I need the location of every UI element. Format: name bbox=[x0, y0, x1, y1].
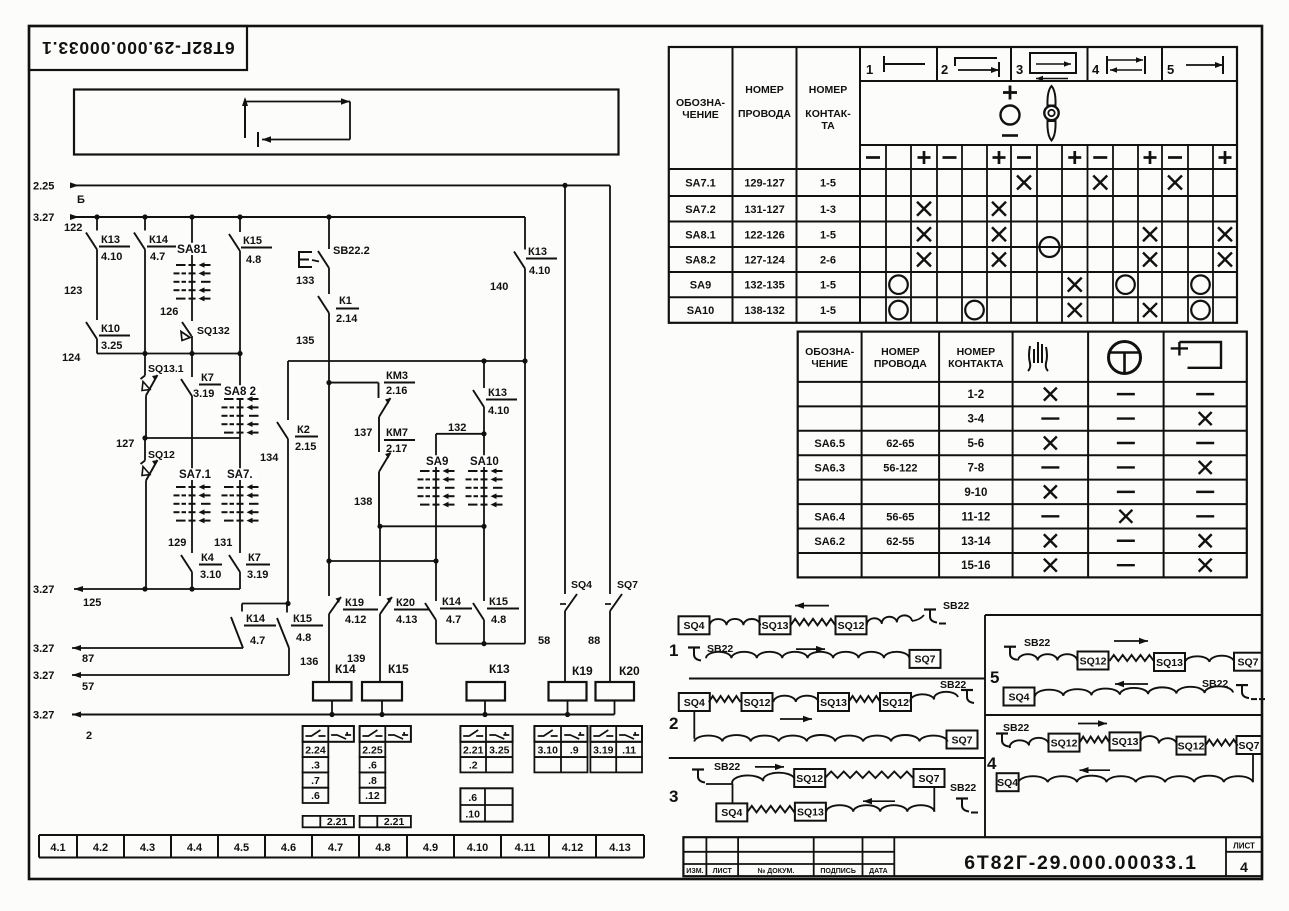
svg-text:SQ12: SQ12 bbox=[1051, 737, 1078, 749]
svg-text:К19: К19 bbox=[345, 597, 364, 609]
svg-text:К15: К15 bbox=[243, 235, 262, 247]
svg-text:2.16: 2.16 bbox=[386, 385, 407, 397]
svg-text:122: 122 bbox=[64, 222, 82, 234]
svg-text:КМ7: КМ7 bbox=[386, 427, 408, 439]
svg-text:SА7.2: SА7.2 bbox=[685, 204, 716, 216]
svg-text:НОМЕР: НОМЕР bbox=[745, 84, 784, 96]
svg-text:НОМЕР: НОМЕР bbox=[809, 84, 848, 96]
svg-text:123: 123 bbox=[64, 285, 82, 297]
svg-text:SQ12: SQ12 bbox=[148, 449, 175, 461]
svg-text:129-127: 129-127 bbox=[744, 178, 784, 190]
svg-text:1-5: 1-5 bbox=[820, 305, 836, 317]
svg-text:4.8: 4.8 bbox=[375, 842, 390, 854]
svg-text:134: 134 bbox=[260, 452, 279, 464]
svg-text:2-6: 2-6 bbox=[820, 255, 836, 267]
svg-text:SВ22.2: SВ22.2 bbox=[333, 245, 370, 257]
svg-text:56-122: 56-122 bbox=[883, 462, 917, 474]
svg-text:2.14: 2.14 bbox=[336, 313, 358, 325]
svg-text:SА8.2: SА8.2 bbox=[685, 255, 716, 267]
svg-text:126: 126 bbox=[160, 306, 178, 318]
svg-text:132-135: 132-135 bbox=[744, 280, 784, 292]
svg-text:SQ4: SQ4 bbox=[1008, 691, 1029, 703]
svg-text:SQ12: SQ12 bbox=[744, 697, 771, 709]
svg-text:3.27: 3.27 bbox=[33, 643, 54, 655]
svg-text:ОБОЗНА-: ОБОЗНА- bbox=[805, 346, 855, 358]
svg-text:127: 127 bbox=[116, 438, 134, 450]
svg-text:3.27: 3.27 bbox=[33, 212, 54, 224]
svg-text:2: 2 bbox=[86, 730, 92, 742]
svg-text:4.10: 4.10 bbox=[101, 251, 122, 263]
svg-text:.6: .6 bbox=[368, 760, 377, 772]
svg-text:1-5: 1-5 bbox=[820, 229, 836, 241]
svg-text:4.11: 4.11 bbox=[515, 842, 536, 854]
svg-text:SQ4: SQ4 bbox=[684, 697, 705, 709]
svg-text:SВ22: SВ22 bbox=[714, 761, 740, 773]
svg-text:2.15: 2.15 bbox=[295, 441, 316, 453]
svg-text:3-4: 3-4 bbox=[968, 414, 985, 426]
svg-text:SQ4: SQ4 bbox=[997, 777, 1018, 789]
svg-text:.6: .6 bbox=[311, 790, 320, 802]
svg-text:ИЗМ.: ИЗМ. bbox=[686, 868, 703, 875]
svg-text:SВ22: SВ22 bbox=[940, 679, 966, 691]
svg-text:К14: К14 bbox=[442, 596, 462, 608]
svg-text:5: 5 bbox=[1167, 62, 1174, 77]
svg-text:87: 87 bbox=[82, 653, 94, 665]
svg-text:4.1: 4.1 bbox=[50, 842, 65, 854]
svg-text:5: 5 bbox=[990, 668, 999, 687]
svg-text:SА7.: SА7. bbox=[227, 469, 253, 481]
svg-text:2.25: 2.25 bbox=[362, 744, 383, 756]
svg-text:2.21: 2.21 bbox=[327, 816, 348, 828]
svg-text:.11: .11 bbox=[622, 744, 636, 756]
svg-text:.9: .9 bbox=[570, 744, 579, 756]
svg-text:К4: К4 bbox=[201, 552, 215, 564]
svg-text:133: 133 bbox=[296, 275, 314, 287]
svg-text:К13: К13 bbox=[101, 234, 120, 246]
svg-text:SА10: SА10 bbox=[470, 456, 499, 468]
svg-text:136: 136 bbox=[300, 656, 318, 668]
svg-text:SQ132: SQ132 bbox=[197, 325, 230, 337]
svg-text:SQ13: SQ13 bbox=[1156, 657, 1183, 669]
svg-text:62-55: 62-55 bbox=[886, 536, 914, 548]
svg-text:4.7: 4.7 bbox=[250, 635, 265, 647]
svg-text:4: 4 bbox=[1092, 62, 1100, 77]
svg-text:11-12: 11-12 bbox=[961, 511, 990, 523]
svg-text:2.21: 2.21 bbox=[463, 744, 484, 756]
svg-text:124: 124 bbox=[62, 352, 81, 364]
svg-text:К19: К19 bbox=[572, 664, 593, 678]
svg-text:НОМЕР: НОМЕР bbox=[881, 346, 920, 358]
svg-text:6Т82Г-29.000.00033.1: 6Т82Г-29.000.00033.1 bbox=[41, 38, 234, 58]
svg-text:SQ12: SQ12 bbox=[1080, 655, 1107, 667]
svg-text:К14: К14 bbox=[149, 234, 169, 246]
svg-text:SА9: SА9 bbox=[690, 280, 711, 292]
svg-text:2: 2 bbox=[669, 714, 678, 733]
svg-text:SА7.1: SА7.1 bbox=[179, 469, 212, 481]
svg-text:К15: К15 bbox=[388, 662, 409, 676]
svg-text:.12: .12 bbox=[365, 790, 380, 802]
svg-text:140: 140 bbox=[490, 281, 508, 293]
svg-text:SА8.1: SА8.1 bbox=[685, 229, 716, 241]
svg-text:ЛИСТ: ЛИСТ bbox=[713, 868, 733, 875]
svg-text:4.5: 4.5 bbox=[234, 842, 249, 854]
svg-text:SА6.3: SА6.3 bbox=[814, 462, 845, 474]
svg-text:.7: .7 bbox=[311, 775, 320, 787]
svg-text:4.7: 4.7 bbox=[328, 842, 343, 854]
svg-text:К13: К13 bbox=[528, 246, 547, 258]
svg-text:.6: .6 bbox=[468, 792, 477, 804]
svg-text:3.25: 3.25 bbox=[101, 340, 122, 352]
svg-text:SВ22: SВ22 bbox=[1202, 678, 1228, 690]
svg-text:58: 58 bbox=[538, 635, 550, 647]
svg-text:.2: .2 bbox=[469, 760, 478, 772]
svg-text:88: 88 bbox=[588, 635, 600, 647]
svg-text:SQ7: SQ7 bbox=[1238, 740, 1259, 752]
svg-text:SВ22: SВ22 bbox=[1024, 637, 1050, 649]
svg-text:3.27: 3.27 bbox=[33, 710, 54, 722]
svg-text:4.13: 4.13 bbox=[609, 842, 630, 854]
svg-text:SQ12: SQ12 bbox=[1178, 740, 1205, 752]
svg-text:2.17: 2.17 bbox=[386, 443, 407, 455]
svg-text:К1: К1 bbox=[339, 295, 352, 307]
svg-text:КМ3: КМ3 bbox=[386, 370, 408, 382]
svg-text:ЧЕНИЕ: ЧЕНИЕ bbox=[811, 358, 848, 370]
svg-text:4.6: 4.6 bbox=[281, 842, 296, 854]
svg-text:131: 131 bbox=[214, 537, 232, 549]
svg-text:SQ4: SQ4 bbox=[683, 620, 704, 632]
svg-text:4: 4 bbox=[987, 754, 997, 773]
svg-text:1-2: 1-2 bbox=[968, 389, 985, 401]
svg-text:4.4: 4.4 bbox=[187, 842, 203, 854]
svg-text:3.10: 3.10 bbox=[200, 569, 221, 581]
svg-text:SQ4: SQ4 bbox=[571, 579, 592, 591]
svg-text:SА81: SА81 bbox=[177, 242, 207, 256]
svg-text:56-65: 56-65 bbox=[886, 511, 914, 523]
svg-text:К10: К10 bbox=[101, 323, 120, 335]
svg-text:SQ4: SQ4 bbox=[721, 807, 742, 819]
svg-text:SQ13: SQ13 bbox=[797, 806, 824, 818]
svg-text:138-132: 138-132 bbox=[744, 305, 784, 317]
svg-text:К13: К13 bbox=[489, 662, 510, 676]
svg-text:ПРОВОДА: ПРОВОДА bbox=[738, 108, 791, 120]
svg-text:ПРОВОДА: ПРОВОДА bbox=[874, 358, 927, 370]
svg-text:127-124: 127-124 bbox=[744, 255, 785, 267]
svg-text:К7: К7 bbox=[248, 552, 261, 564]
svg-text:4.10: 4.10 bbox=[529, 265, 550, 277]
svg-text:Б: Б bbox=[77, 194, 85, 206]
svg-text:1-5: 1-5 bbox=[820, 178, 836, 190]
svg-text:3.19: 3.19 bbox=[247, 569, 268, 581]
svg-text:SВ22: SВ22 bbox=[950, 782, 976, 794]
svg-text:КОНТАК-: КОНТАК- bbox=[805, 108, 851, 120]
svg-text:3.19: 3.19 bbox=[193, 388, 214, 400]
svg-text:SА8 2: SА8 2 bbox=[224, 386, 256, 398]
svg-text:SА6.4: SА6.4 bbox=[814, 511, 845, 523]
svg-text:SВ22: SВ22 bbox=[943, 600, 969, 612]
svg-text:SQ13: SQ13 bbox=[820, 697, 847, 709]
svg-text:15-16: 15-16 bbox=[961, 560, 990, 572]
svg-text:4.2: 4.2 bbox=[93, 842, 108, 854]
svg-text:7-8: 7-8 bbox=[968, 462, 985, 474]
svg-text:135: 135 bbox=[296, 335, 314, 347]
svg-text:SА7.1: SА7.1 bbox=[685, 178, 716, 190]
svg-text:1-3: 1-3 bbox=[820, 204, 836, 216]
svg-text:SQ7: SQ7 bbox=[1237, 656, 1258, 668]
svg-text:4.8: 4.8 bbox=[296, 632, 311, 644]
svg-text:SQ12: SQ12 bbox=[882, 697, 909, 709]
svg-text:ПОДПИСЬ: ПОДПИСЬ bbox=[820, 868, 856, 875]
svg-text:129: 129 bbox=[168, 537, 186, 549]
svg-text:4.7: 4.7 bbox=[150, 251, 165, 263]
svg-text:4.8: 4.8 bbox=[246, 254, 261, 266]
svg-text:62-65: 62-65 bbox=[886, 438, 914, 450]
svg-text:4.10: 4.10 bbox=[467, 842, 488, 854]
svg-text:4.13: 4.13 bbox=[396, 614, 417, 626]
svg-text:ТА: ТА bbox=[821, 120, 835, 132]
svg-text:1-5: 1-5 bbox=[820, 280, 836, 292]
svg-text:К7: К7 bbox=[201, 372, 214, 384]
svg-text:SQ13.1: SQ13.1 bbox=[148, 363, 184, 375]
svg-text:К15: К15 bbox=[489, 596, 508, 608]
svg-text:5-6: 5-6 bbox=[968, 438, 985, 450]
svg-text:К20: К20 bbox=[619, 664, 640, 678]
svg-text:К20: К20 bbox=[396, 597, 415, 609]
svg-text:2.24: 2.24 bbox=[305, 744, 326, 756]
svg-text:SQ13: SQ13 bbox=[1112, 736, 1139, 748]
svg-text:125: 125 bbox=[83, 597, 101, 609]
svg-text:SQ13: SQ13 bbox=[762, 620, 789, 632]
svg-text:SА6.5: SА6.5 bbox=[814, 438, 845, 450]
svg-text:SQ7: SQ7 bbox=[951, 734, 972, 746]
svg-text:1: 1 bbox=[866, 62, 873, 77]
svg-text:4.12: 4.12 bbox=[345, 614, 366, 626]
svg-text:ОБОЗНА-: ОБОЗНА- bbox=[676, 97, 726, 109]
svg-text:НОМЕР: НОМЕР bbox=[957, 346, 996, 358]
svg-text:3.27: 3.27 bbox=[33, 584, 54, 596]
svg-text:4.12: 4.12 bbox=[562, 842, 583, 854]
svg-text:SQ7: SQ7 bbox=[918, 773, 939, 785]
svg-text:3.10: 3.10 bbox=[537, 744, 558, 756]
svg-text:4.8: 4.8 bbox=[491, 614, 506, 626]
svg-text:К13: К13 bbox=[488, 387, 507, 399]
svg-text:ЛИСТ: ЛИСТ bbox=[1233, 842, 1255, 851]
svg-text:2.21: 2.21 bbox=[384, 816, 405, 828]
svg-text:.8: .8 bbox=[368, 775, 377, 787]
svg-text:132: 132 bbox=[448, 422, 466, 434]
svg-text:4.7: 4.7 bbox=[446, 614, 461, 626]
svg-text:SВ22: SВ22 bbox=[1003, 722, 1029, 734]
svg-text:3: 3 bbox=[1016, 62, 1023, 77]
svg-text:№ ДОКУМ.: № ДОКУМ. bbox=[758, 867, 795, 875]
svg-text:122-126: 122-126 bbox=[744, 229, 784, 241]
svg-text:13-14: 13-14 bbox=[961, 536, 991, 548]
svg-text:137: 137 bbox=[354, 427, 372, 439]
svg-text:4.3: 4.3 bbox=[140, 842, 155, 854]
svg-text:К14: К14 bbox=[335, 662, 356, 676]
svg-text:57: 57 bbox=[82, 681, 94, 693]
svg-text:SА9: SА9 bbox=[426, 456, 448, 468]
svg-text:SQ12: SQ12 bbox=[796, 773, 823, 785]
svg-text:1: 1 bbox=[669, 641, 678, 660]
svg-text:3.25: 3.25 bbox=[489, 744, 510, 756]
svg-text:138: 138 bbox=[354, 496, 372, 508]
svg-text:К14: К14 bbox=[246, 613, 266, 625]
svg-text:ЧЕНИЕ: ЧЕНИЕ bbox=[682, 109, 719, 121]
svg-text:SQ7: SQ7 bbox=[617, 579, 638, 591]
svg-text:3: 3 bbox=[669, 787, 678, 806]
svg-text:ДАТА: ДАТА bbox=[869, 868, 888, 875]
svg-text:К2: К2 bbox=[297, 424, 310, 436]
svg-text:.10: .10 bbox=[465, 809, 480, 821]
svg-text:4.9: 4.9 bbox=[423, 842, 438, 854]
svg-text:131-127: 131-127 bbox=[744, 204, 784, 216]
svg-text:SА10: SА10 bbox=[687, 305, 715, 317]
svg-text:4: 4 bbox=[1240, 859, 1248, 875]
svg-text:SА6.2: SА6.2 bbox=[814, 536, 845, 548]
svg-text:2.25: 2.25 bbox=[33, 181, 54, 193]
svg-text:К15: К15 bbox=[293, 613, 312, 625]
svg-text:3.27: 3.27 bbox=[33, 670, 54, 682]
svg-text:SQ7: SQ7 bbox=[914, 654, 935, 666]
svg-text:4.10: 4.10 bbox=[488, 405, 509, 417]
svg-text:3.19: 3.19 bbox=[593, 744, 614, 756]
svg-text:2: 2 bbox=[941, 62, 948, 77]
svg-text:SQ12: SQ12 bbox=[838, 620, 865, 632]
svg-text:6Т82Г-29.000.00033.1: 6Т82Г-29.000.00033.1 bbox=[964, 852, 1198, 874]
svg-text:КОНТАКТА: КОНТАКТА bbox=[948, 358, 1004, 370]
svg-text:9-10: 9-10 bbox=[964, 487, 987, 499]
svg-text:.3: .3 bbox=[311, 760, 320, 772]
